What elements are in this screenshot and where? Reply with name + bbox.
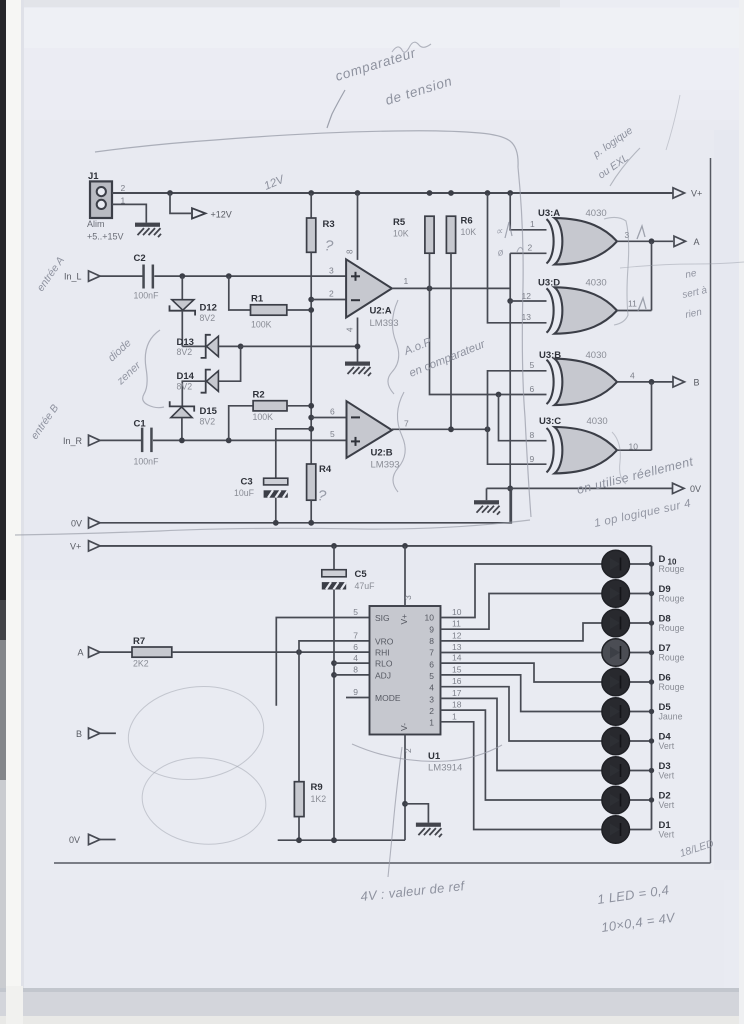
wire U3D pin12	[510, 291, 546, 301]
resistor R1	[229, 276, 311, 329]
svg-text:U3:A: U3:A	[538, 208, 560, 219]
wire U3B pin6 from U2A out	[430, 288, 547, 397]
svg-text:U1: U1	[428, 751, 441, 762]
svg-text:Rouge: Rouge	[659, 594, 685, 604]
svg-text:6: 6	[429, 659, 434, 669]
svg-text:C3: C3	[241, 477, 253, 488]
LED D1 Vert	[602, 816, 675, 844]
svg-text:7: 7	[404, 419, 409, 429]
svg-text:8V2: 8V2	[177, 381, 193, 391]
scanner edge: white strip left	[6, 0, 23, 1024]
frame border bottom	[54, 862, 711, 864]
svg-text:C2: C2	[134, 253, 146, 264]
capacitor C1	[134, 419, 160, 467]
wire 0V bottom rail of top section	[100, 488, 512, 525]
wire U2A output	[392, 276, 510, 291]
svg-text:5: 5	[530, 360, 535, 370]
svg-text:2K2: 2K2	[133, 659, 149, 669]
svg-text:RLO: RLO	[375, 659, 393, 669]
bottom paper edge and scanner band	[0, 988, 744, 992]
frame border right	[710, 158, 712, 863]
LED D10 Rouge	[602, 550, 685, 578]
svg-text:Rouge: Rouge	[659, 682, 685, 692]
wire C2 to op-amp pin3	[154, 266, 346, 280]
svg-text:8V2: 8V2	[177, 347, 193, 357]
svg-text:Vert: Vert	[659, 800, 675, 810]
svg-text:A: A	[78, 648, 84, 658]
LED D8 Rouge	[602, 609, 685, 637]
svg-text:Vert: Vert	[659, 830, 675, 840]
terminal A right	[674, 236, 700, 247]
terminal 0V right	[673, 483, 702, 494]
svg-text:8: 8	[353, 665, 358, 675]
svg-text:1: 1	[452, 711, 457, 721]
svg-text:R1: R1	[251, 294, 264, 305]
svg-text:U2:B: U2:B	[371, 448, 393, 459]
svg-text:4: 4	[353, 653, 358, 663]
wire VRO loop	[299, 641, 370, 652]
svg-text:0V: 0V	[71, 518, 82, 528]
XOR gate U3:D	[538, 278, 617, 334]
svg-text:8V2: 8V2	[200, 313, 216, 323]
svg-text:4030: 4030	[586, 350, 607, 361]
wire LED anode bus	[651, 546, 653, 830]
node 12V rail junctions	[167, 190, 513, 196]
zener diode D12	[170, 276, 217, 346]
terminal V+ top right	[673, 188, 702, 199]
svg-text:8: 8	[346, 249, 355, 254]
svg-text:B: B	[694, 378, 700, 388]
svg-text:2: 2	[329, 289, 334, 299]
ground symbol at U2A	[345, 362, 371, 377]
wire ADJ stub	[334, 674, 370, 676]
svg-text:10: 10	[425, 613, 435, 623]
wire SIG trace	[276, 618, 369, 706]
svg-text:4: 4	[429, 683, 434, 693]
svg-text:100K: 100K	[253, 412, 274, 422]
scanner edge: dark left strip	[0, 0, 7, 1024]
LED D5 Jaune	[602, 698, 683, 726]
svg-text:VRO: VRO	[375, 636, 394, 646]
svg-text:2: 2	[429, 706, 434, 716]
svg-text:15: 15	[452, 664, 462, 674]
svg-text:2: 2	[121, 183, 126, 193]
svg-text:V+: V+	[691, 189, 702, 199]
resistor R5	[393, 216, 434, 288]
svg-text:3: 3	[429, 694, 434, 704]
svg-text:12: 12	[452, 630, 462, 640]
svg-text:3: 3	[329, 266, 334, 276]
svg-text:C1: C1	[134, 419, 147, 430]
svg-text:R7: R7	[133, 636, 145, 647]
resistor R7	[100, 636, 172, 669]
zener diode D13	[177, 335, 241, 358]
svg-text:13: 13	[452, 642, 462, 652]
resistor R2	[229, 389, 312, 440]
svg-text:100nF: 100nF	[134, 457, 160, 467]
LED D3 Vert	[602, 757, 675, 785]
wire U2B pin6	[311, 407, 346, 440]
wire U1 pin3 V+	[403, 546, 413, 606]
+12V arrow terminal	[192, 208, 232, 219]
svg-text:Rouge: Rouge	[659, 564, 685, 574]
wire U1 pin to LED D9 (net 11)	[441, 594, 602, 630]
svg-text:R2: R2	[253, 389, 265, 400]
resistor R3	[307, 193, 335, 252]
svg-text:47uF: 47uF	[355, 581, 376, 591]
svg-text:U2:A: U2:A	[370, 306, 392, 317]
capacitor C3	[234, 429, 311, 523]
svg-text:A: A	[694, 237, 700, 247]
wire 12V rail	[112, 192, 673, 194]
svg-text:11: 11	[452, 619, 461, 629]
svg-text:C5: C5	[355, 569, 368, 580]
svg-text:U3:D: U3:D	[538, 278, 560, 289]
wire U1 pin2 V- to 0V rail	[402, 735, 413, 841]
wire In_R row	[100, 439, 143, 441]
svg-text:7: 7	[353, 631, 358, 641]
XOR gate U3:B	[539, 350, 617, 405]
svg-text:RHI: RHI	[375, 648, 390, 658]
terminal 0V bottom section	[69, 834, 116, 845]
svg-text:9: 9	[530, 454, 535, 464]
svg-text:SIG: SIG	[375, 613, 390, 623]
svg-text:4: 4	[346, 327, 355, 332]
svg-text:1: 1	[530, 219, 535, 229]
wire U1 pin to LED D5 (net 15)	[441, 664, 602, 711]
LED D2 Vert	[602, 786, 675, 814]
svg-text:Vert: Vert	[659, 741, 675, 751]
svg-text:ADJ: ADJ	[375, 671, 391, 681]
node D13-D14 junction	[238, 344, 244, 350]
wire U1 pin to LED D10 (net 10)	[441, 564, 602, 618]
wire V+ rail bottom section	[100, 543, 652, 549]
wire U3C pin9 from U2B out	[488, 429, 547, 464]
wire out net down to 0V	[507, 301, 513, 523]
wire U1 pin to LED D1 (net 1)	[441, 711, 602, 829]
svg-text:14: 14	[452, 653, 462, 663]
wire U1 pin to LED D2 (net 18)	[441, 700, 602, 800]
wire U1 pin to LED D4 (net 16)	[441, 676, 602, 741]
terminal 0V left (top section)	[71, 518, 100, 529]
wire RLO stub	[334, 662, 370, 664]
op-amp U2:A	[346, 259, 398, 329]
svg-text:4: 4	[630, 371, 635, 381]
resistor R4	[307, 464, 332, 523]
svg-text:8: 8	[429, 636, 434, 646]
wire U3A pin1 from rail	[510, 193, 546, 230]
svg-text:6: 6	[330, 407, 335, 417]
svg-text:100nF: 100nF	[134, 291, 160, 301]
svg-text:Jaune: Jaune	[659, 712, 683, 722]
wire ground branch U1	[405, 804, 428, 823]
svg-text:18: 18	[452, 700, 462, 710]
svg-text:10K: 10K	[461, 227, 477, 237]
zener diode D15	[170, 401, 218, 440]
wire ground stub 0V row	[486, 488, 488, 500]
wire A node to U3D output	[617, 241, 652, 310]
svg-text:9: 9	[429, 624, 434, 634]
svg-text:16: 16	[452, 676, 462, 686]
ground symbol at U1	[416, 823, 442, 838]
wire U1 pin to LED D6 (net 14)	[441, 653, 602, 682]
svg-text:100K: 100K	[251, 320, 272, 330]
svg-text:Rouge: Rouge	[659, 653, 685, 663]
resistor R9	[294, 782, 326, 841]
svg-text:V+: V+	[70, 542, 81, 552]
wire D13 node to U2A pin4	[241, 345, 358, 347]
IC U1 LM3914	[370, 606, 463, 774]
svg-text:4030: 4030	[586, 208, 607, 219]
svg-text:5: 5	[330, 429, 335, 439]
terminal V+ bottom section	[70, 541, 100, 552]
wire B node to U3C output	[617, 382, 652, 452]
svg-text:U3:C: U3:C	[539, 416, 561, 427]
XOR gate U3:C	[539, 416, 617, 473]
right paper edge sliver	[714, 130, 742, 870]
wire J1 pin1 to ground	[112, 204, 146, 222]
svg-text:10: 10	[452, 607, 462, 617]
svg-text:Alim: Alim	[87, 219, 105, 229]
svg-text:LM393: LM393	[371, 460, 400, 471]
svg-text:10: 10	[629, 442, 639, 452]
svg-text:1: 1	[429, 718, 434, 728]
svg-text:+5..+15V: +5..+15V	[87, 232, 124, 242]
wire divider node vertical	[308, 252, 314, 464]
wire U2A pin4 to ground	[346, 318, 361, 362]
zener diode D14	[177, 346, 241, 406]
wire U1 pin to LED D8 (net 12)	[441, 623, 602, 641]
LED D4 Vert	[602, 727, 675, 755]
svg-text:6: 6	[353, 642, 358, 652]
terminal In_R	[63, 435, 100, 446]
wire 0V row right	[487, 487, 673, 489]
svg-text:17: 17	[452, 688, 462, 698]
LED D6 Rouge	[602, 668, 685, 696]
svg-text:+12V: +12V	[211, 210, 232, 220]
svg-text:2: 2	[403, 748, 413, 753]
wire MODE stub	[346, 697, 370, 699]
svg-text:Rouge: Rouge	[659, 623, 685, 633]
XOR gate U3:A	[538, 208, 617, 265]
svg-text:8V2: 8V2	[200, 416, 216, 426]
wire C5/RLO/ADJ vertical to 0V	[331, 590, 337, 841]
wire 0V bottom rail	[278, 837, 405, 843]
svg-text:R6: R6	[461, 216, 473, 227]
wire R9 node vertical	[298, 652, 300, 782]
svg-text:0V: 0V	[69, 835, 80, 845]
wire U1 pin to LED D3 (net 17)	[441, 688, 602, 771]
svg-text:LM3914: LM3914	[428, 763, 462, 774]
wire U3B output to B	[617, 371, 673, 385]
capacitor C2	[134, 253, 160, 301]
terminal B right	[673, 377, 700, 388]
svg-text:4030: 4030	[587, 416, 608, 427]
svg-text:R9: R9	[311, 782, 323, 793]
svg-text:0V: 0V	[690, 484, 701, 494]
svg-text:6: 6	[530, 384, 535, 394]
terminal B bottom section	[76, 728, 116, 739]
svg-text:In_R: In_R	[63, 436, 83, 446]
svg-text:B: B	[76, 729, 82, 739]
capacitor C5	[322, 546, 375, 591]
wire U3A output to A	[617, 230, 673, 244]
svg-text:J1: J1	[88, 171, 99, 182]
svg-text:4030: 4030	[586, 278, 607, 289]
svg-text:2: 2	[528, 243, 533, 253]
svg-text:V-: V-	[399, 723, 409, 731]
connector J1	[87, 171, 126, 242]
svg-text:1K2: 1K2	[311, 794, 327, 804]
svg-text:11: 11	[628, 299, 637, 309]
wire U2A pin8 power	[346, 193, 358, 260]
wire +12V branch	[170, 193, 191, 213]
LED D9 Rouge	[602, 580, 685, 608]
U1 left pin numbers	[353, 607, 358, 697]
ground symbol at 0V row	[474, 500, 500, 515]
wire U3C pin8	[499, 395, 547, 441]
wire U3D pin13 from rail	[488, 193, 547, 323]
svg-text:R5: R5	[393, 217, 406, 228]
svg-text:In_L: In_L	[64, 272, 82, 282]
wire In_L row	[100, 275, 144, 277]
op-amp U2:B	[347, 401, 400, 470]
svg-text:V+: V+	[399, 614, 409, 625]
resistor R6	[446, 216, 476, 430]
svg-text:5: 5	[353, 607, 358, 617]
svg-text:LM393: LM393	[370, 318, 399, 329]
svg-text:10uF: 10uF	[234, 488, 255, 498]
svg-text:R4: R4	[319, 464, 332, 475]
ground symbol at J1	[135, 223, 161, 238]
svg-text:7: 7	[429, 648, 434, 658]
U1 right inside pin numbers	[425, 613, 435, 728]
wire U2B output	[392, 419, 491, 433]
svg-text:3: 3	[403, 595, 413, 600]
terminal A bottom section	[78, 647, 101, 658]
wire U2A pin2	[311, 289, 346, 300]
wire R7 to RHI	[172, 649, 370, 655]
svg-text:R3: R3	[323, 219, 335, 230]
svg-text:10K: 10K	[393, 229, 409, 239]
wire C1 to op-amp pin5	[153, 438, 347, 444]
wire U2A out to U3D pin12 vertical	[507, 253, 513, 304]
svg-text:8: 8	[530, 430, 535, 440]
svg-text:Vert: Vert	[659, 771, 675, 781]
svg-text:5: 5	[429, 671, 434, 681]
wire U3B pin5 from U2B out	[488, 360, 547, 429]
terminal In_L	[64, 271, 100, 282]
wire U3A pin2	[510, 243, 546, 254]
svg-text:MODE: MODE	[375, 693, 401, 703]
svg-text:1: 1	[404, 276, 409, 286]
svg-text:U3:B: U3:B	[539, 350, 561, 361]
wire U1 pin to LED D7 (net 13)	[441, 642, 602, 653]
LED D7 Rouge	[602, 639, 685, 667]
svg-text:9: 9	[353, 687, 358, 697]
